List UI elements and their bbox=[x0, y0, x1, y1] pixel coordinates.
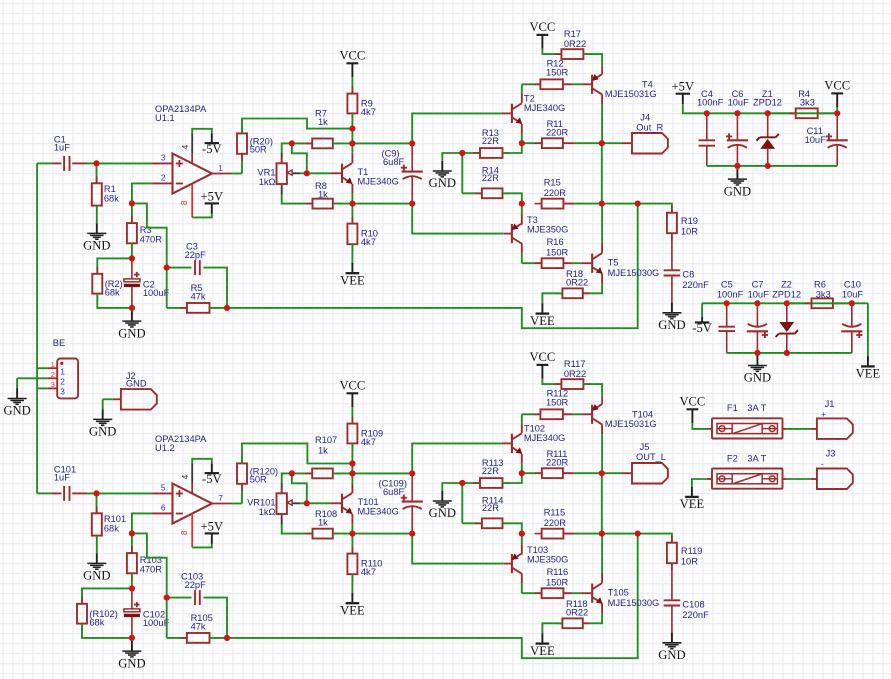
resistor R10 bbox=[347, 217, 357, 252]
svg-text:C7: C7 bbox=[752, 279, 764, 289]
wire GND junction down bbox=[461, 483, 463, 523]
node C6 bottom bbox=[734, 163, 740, 169]
svg-text:22R: 22R bbox=[482, 136, 499, 146]
label C1 value bbox=[54, 134, 70, 152]
wire T101 emitter bbox=[351, 514, 353, 534]
wire R101 bottom pin bbox=[96, 536, 98, 554]
svg-text:VCC: VCC bbox=[339, 378, 365, 392]
wire wiper Z-link bbox=[292, 143, 307, 173]
svg-text:C8: C8 bbox=[682, 269, 694, 279]
wire R103 bottom pin bbox=[131, 573, 133, 588]
resistor R101 bbox=[92, 506, 102, 542]
wire F2 right pin bbox=[782, 478, 787, 480]
resistor R11 bbox=[535, 138, 570, 148]
label R7 bbox=[315, 108, 328, 127]
resistor R17 bbox=[554, 49, 590, 59]
label F1 rating bbox=[747, 403, 766, 413]
capacitor C1 bbox=[64, 156, 69, 171]
wire input C1 row bbox=[37, 162, 52, 164]
wire -5V stub link bbox=[701, 303, 703, 317]
connector J5 bbox=[632, 463, 668, 484]
node R3 top junction bbox=[129, 200, 135, 206]
wire R117 to T104 emitter bbox=[583, 384, 602, 396]
wire C102 top pin bbox=[131, 588, 133, 609]
wire VR101 bottom dark segment bbox=[281, 517, 283, 525]
label C8 bbox=[682, 269, 709, 290]
wire GND link bbox=[442, 153, 462, 161]
svg-text:3A T: 3A T bbox=[747, 454, 766, 464]
svg-text:-5V: -5V bbox=[202, 142, 222, 156]
wire C4 top pin bbox=[706, 113, 708, 140]
wire T2 emitter bbox=[521, 124, 523, 143]
resistor R114 bbox=[475, 518, 510, 528]
wire output col bbox=[601, 473, 603, 533]
svg-text:T103: T103 bbox=[527, 545, 548, 555]
wire opamp pin4 to -5V bbox=[192, 129, 212, 134]
wire T4 emitter pin bbox=[601, 66, 603, 74]
label R9 bbox=[361, 99, 376, 118]
supply -5V opamp U1.1 bbox=[202, 133, 222, 156]
label R10 bbox=[361, 229, 378, 248]
wire J3 pin bbox=[811, 478, 817, 480]
svg-text:OUT_L: OUT_L bbox=[636, 452, 666, 462]
wire A from (R20) top bbox=[242, 119, 352, 134]
svg-text:R17: R17 bbox=[564, 29, 581, 39]
capacitor C3 bbox=[195, 260, 200, 275]
svg-text:5: 5 bbox=[161, 482, 166, 492]
svg-text:F2: F2 bbox=[727, 454, 738, 464]
wire opamp pin8 to +5V bbox=[192, 214, 212, 218]
wire VR101 to R108 bbox=[282, 525, 313, 534]
wire R19 top bbox=[638, 204, 672, 213]
svg-text:GND: GND bbox=[658, 648, 685, 662]
label J1 bbox=[825, 399, 835, 409]
svg-text:VEE: VEE bbox=[340, 274, 365, 288]
wire R108 right pin bbox=[333, 533, 353, 535]
node wiper junction bbox=[304, 170, 310, 176]
label T3 bbox=[527, 215, 568, 235]
node C7 bottom bbox=[754, 350, 760, 356]
ground below C2 bbox=[118, 311, 145, 340]
node R108 right junction bbox=[349, 531, 355, 537]
transistor T101 bbox=[342, 493, 352, 514]
pin number 1 opamp out bbox=[218, 163, 223, 173]
label R119 bbox=[681, 546, 703, 566]
label R105 bbox=[191, 613, 213, 632]
label J3 bbox=[826, 448, 836, 458]
node C3 left junction bbox=[164, 265, 170, 271]
svg-text:1uF: 1uF bbox=[54, 143, 70, 153]
svg-text:R16: R16 bbox=[547, 237, 564, 247]
node C9 top junction bbox=[409, 140, 415, 146]
node output junction bbox=[599, 140, 605, 146]
svg-text:220nF: 220nF bbox=[682, 280, 709, 290]
resistor R9 bbox=[347, 87, 357, 121]
wire F2 to J3 bbox=[787, 478, 811, 480]
label C101 value bbox=[54, 464, 76, 482]
label op-amp U1.1 bbox=[155, 104, 207, 123]
supply -5V rail bbox=[692, 317, 712, 335]
resistor R107 bbox=[305, 469, 340, 479]
wire opamp output to R20 node bbox=[232, 503, 242, 505]
wire R1 bottom pin bbox=[96, 206, 98, 224]
wire R119 top bbox=[638, 534, 672, 543]
svg-text:C108: C108 bbox=[682, 599, 704, 609]
svg-text:VEE: VEE bbox=[530, 314, 555, 328]
svg-text:6u8F: 6u8F bbox=[383, 487, 405, 497]
pin number 6 opamp -in bbox=[161, 503, 166, 513]
resistor R14 bbox=[475, 188, 510, 198]
resistor R16 bbox=[535, 258, 571, 268]
label J4 bbox=[636, 113, 663, 133]
wire C3 right bbox=[203, 268, 227, 308]
wire feedback rail bbox=[227, 534, 638, 659]
wire T1 emitter bbox=[351, 184, 353, 204]
svg-text:10R: 10R bbox=[681, 556, 698, 566]
resistor R110 bbox=[347, 547, 357, 582]
wire R109 bottom pin bbox=[351, 443, 353, 463]
wire Z2 bottom pin bbox=[786, 334, 788, 353]
resistor R111 bbox=[535, 468, 570, 478]
wire VR1 wiper dark segment bbox=[292, 172, 299, 174]
wire J5 pin bbox=[622, 472, 632, 474]
svg-text:T105: T105 bbox=[608, 588, 629, 598]
ground -5V block bbox=[744, 355, 771, 384]
power VEE R110 bbox=[340, 593, 365, 618]
svg-text:1: 1 bbox=[51, 360, 55, 369]
svg-text:R1: R1 bbox=[104, 184, 116, 194]
label T102 bbox=[524, 424, 565, 443]
wire feedback rail bbox=[227, 204, 638, 329]
wire J4 pin bbox=[622, 142, 632, 144]
node C2 bottom junction bbox=[129, 305, 135, 311]
wire opamp pin3 stub bbox=[153, 162, 173, 164]
svg-text:22R: 22R bbox=[482, 466, 499, 476]
label R15 bbox=[544, 178, 567, 198]
node Z1 bottom bbox=[765, 163, 771, 169]
wire T103 base feed bbox=[412, 534, 504, 564]
svg-text:J1: J1 bbox=[825, 399, 835, 409]
zener Z2 bbox=[776, 322, 798, 337]
wire R113 right bbox=[503, 473, 522, 483]
wire R19 to C8 bbox=[671, 233, 673, 270]
svg-text:50R: 50R bbox=[250, 475, 267, 485]
ground mid bbox=[429, 491, 456, 520]
svg-text:220R: 220R bbox=[546, 458, 569, 468]
node feedback top junction bbox=[635, 531, 641, 537]
wire T104 emitter pin bbox=[601, 396, 603, 404]
svg-text:VR101: VR101 bbox=[247, 497, 275, 507]
wire C5 top pin bbox=[726, 303, 728, 326]
svg-text:1k: 1k bbox=[318, 117, 328, 127]
svg-text:GND: GND bbox=[83, 569, 110, 583]
svg-text:U1.2: U1.2 bbox=[155, 443, 175, 453]
potentiometer VR101 bbox=[277, 487, 293, 520]
svg-text:0R22: 0R22 bbox=[564, 39, 586, 49]
svg-text:68k: 68k bbox=[104, 194, 119, 204]
wire VR1 wiper bbox=[300, 172, 307, 174]
wire T1 collector bbox=[351, 143, 353, 163]
svg-text:150R: 150R bbox=[546, 68, 569, 78]
wire (R102) bottom bbox=[82, 624, 132, 638]
svg-text:GND: GND bbox=[744, 371, 771, 385]
connector J3 bbox=[817, 469, 853, 490]
wire C3 left bbox=[167, 267, 192, 269]
wire C9 top pin bbox=[411, 143, 413, 171]
label R8 bbox=[315, 181, 328, 200]
power VEE fuse F2 bbox=[680, 487, 705, 512]
zener Z1 bbox=[757, 134, 779, 149]
power VCC R17 bbox=[529, 20, 555, 49]
label C7 bbox=[748, 279, 770, 299]
node R15 left junction bbox=[519, 201, 525, 207]
wire T3 emitter bbox=[521, 204, 523, 225]
svg-text:2: 2 bbox=[51, 370, 55, 379]
svg-text:R117: R117 bbox=[564, 359, 586, 369]
wire R16 left bbox=[522, 262, 542, 264]
wire R114 left bbox=[462, 522, 482, 524]
power VEE R10 bbox=[340, 263, 365, 288]
wire opamp -in pin stub bbox=[153, 512, 173, 514]
wire C6 top pin bbox=[736, 113, 738, 140]
wire VCC to R109 bbox=[351, 407, 353, 418]
wire R10 top pin bbox=[351, 204, 353, 224]
wire R13 left bbox=[462, 152, 480, 154]
label T4 bbox=[605, 80, 657, 100]
svg-text:MJE340G: MJE340G bbox=[524, 103, 565, 113]
wire R112 left bbox=[522, 413, 541, 415]
wire R114 right bbox=[503, 523, 522, 533]
svg-text:0R22: 0R22 bbox=[566, 608, 588, 618]
wire R7 left pin bbox=[292, 142, 312, 144]
svg-text:VCC: VCC bbox=[529, 20, 555, 34]
wire BE pin3 tap bbox=[37, 387, 47, 389]
label (R102) bbox=[89, 609, 117, 628]
wire T3 base pin bbox=[504, 233, 511, 235]
wire to VR1 top bbox=[282, 143, 292, 153]
resistor R113 bbox=[473, 478, 510, 488]
svg-text:F1: F1 bbox=[727, 403, 738, 413]
wire VCC to R17 bbox=[542, 49, 561, 54]
label R107 bbox=[315, 435, 337, 456]
wire T1 base bbox=[307, 172, 331, 174]
wire R10 bottom pin bbox=[351, 244, 353, 263]
wire R105 right bbox=[210, 637, 228, 639]
wire bias row right bbox=[352, 142, 412, 144]
resistor R6 bbox=[805, 298, 840, 308]
wire T4 collector bbox=[601, 94, 603, 143]
node R15 right junction bbox=[599, 201, 605, 207]
label (C9) bbox=[382, 149, 405, 168]
wire Z1 bottom pin bbox=[767, 149, 769, 166]
wire C103 feed bbox=[132, 533, 167, 597]
wire F1 right pin bbox=[782, 428, 787, 430]
svg-text:+: + bbox=[821, 409, 826, 419]
node input junction bbox=[93, 490, 99, 496]
wire F2 left pin bbox=[707, 478, 712, 480]
svg-text:2: 2 bbox=[161, 173, 166, 183]
svg-text:1: 1 bbox=[218, 163, 223, 173]
label J2 bbox=[126, 371, 147, 388]
wire R1 top pin bbox=[96, 163, 98, 183]
svg-text:VEE: VEE bbox=[856, 367, 881, 381]
node R7 left junction bbox=[289, 140, 295, 146]
capacitor C6 bbox=[726, 133, 748, 148]
wire T3 collector bbox=[521, 243, 523, 263]
label R12 bbox=[546, 58, 569, 77]
svg-text:J4: J4 bbox=[640, 113, 650, 123]
label Z1 bbox=[753, 89, 782, 108]
transistor T105 bbox=[592, 583, 602, 604]
fuse F2 bbox=[712, 469, 783, 489]
wire F1 left pin bbox=[707, 428, 712, 430]
node feedback junction bbox=[224, 635, 230, 641]
wire C1 left pin bbox=[52, 162, 61, 164]
svg-text:150R: 150R bbox=[546, 578, 569, 588]
transistor T4 bbox=[592, 74, 602, 94]
svg-text:R6: R6 bbox=[814, 279, 826, 289]
svg-text:VEE: VEE bbox=[340, 604, 365, 618]
wire R14 left bbox=[462, 192, 482, 194]
node wiper junction bbox=[304, 500, 310, 506]
wire C11 bottom pin bbox=[836, 145, 838, 166]
wire VCC to R9 bbox=[351, 77, 353, 88]
wire C1 to opamp +in bbox=[87, 162, 153, 164]
svg-text:MJE340G: MJE340G bbox=[358, 507, 399, 517]
wire VR101 top dark segment bbox=[281, 483, 283, 493]
svg-text:1k: 1k bbox=[318, 190, 328, 200]
wire R15 right bbox=[563, 203, 601, 205]
pin numbers BE left bbox=[51, 360, 55, 389]
label R108 bbox=[315, 509, 337, 528]
resistor (R102) bbox=[77, 597, 87, 631]
transistor T102 bbox=[512, 433, 522, 454]
svg-text:ZPD12: ZPD12 bbox=[753, 98, 782, 108]
wire C101 left pin bbox=[52, 492, 61, 494]
svg-text:50R: 50R bbox=[250, 145, 267, 155]
wire VR101 wiper dark segment bbox=[292, 502, 299, 504]
node R103 bottom junction bbox=[129, 585, 135, 591]
label F2 bbox=[727, 454, 738, 464]
wire BE pin2 stub bbox=[47, 377, 57, 379]
wire R105 left2 bbox=[167, 637, 187, 639]
resistor R13 bbox=[473, 148, 510, 158]
svg-text:68k: 68k bbox=[105, 287, 120, 297]
node output junction bbox=[599, 470, 605, 476]
svg-text:10uF: 10uF bbox=[728, 98, 750, 108]
wire R11 right bbox=[563, 142, 602, 144]
ground below C108 bbox=[658, 633, 685, 662]
svg-text:100nF: 100nF bbox=[717, 290, 744, 300]
wire R16 right bbox=[563, 262, 591, 264]
svg-text:220R: 220R bbox=[546, 128, 569, 138]
label (C109) bbox=[379, 479, 407, 498]
svg-text:220R: 220R bbox=[544, 188, 567, 198]
wire output col bbox=[601, 143, 603, 203]
wire T5 emitter bbox=[583, 274, 602, 294]
svg-text:T101: T101 bbox=[358, 497, 379, 507]
svg-text:-5V: -5V bbox=[202, 472, 222, 486]
wire T103 collector bbox=[521, 573, 523, 593]
wire T102 base feed bbox=[412, 443, 502, 473]
label R16 bbox=[546, 237, 569, 257]
node C109 bottom junction bbox=[409, 531, 415, 537]
pin 8 stub opamp bbox=[191, 514, 193, 548]
wire T101 collector bbox=[351, 473, 353, 493]
wire opamp output pin bbox=[212, 173, 232, 175]
power VCC fuse F1 bbox=[679, 394, 705, 423]
label R116 bbox=[546, 567, 569, 587]
node Z1 top bbox=[765, 110, 771, 116]
svg-text:R116: R116 bbox=[547, 567, 569, 577]
node C5 top bbox=[724, 300, 730, 306]
ground BE pin2 bbox=[3, 388, 30, 417]
label T2 bbox=[524, 94, 565, 113]
wire VEE to F2 bbox=[692, 479, 707, 487]
svg-text:4k7: 4k7 bbox=[361, 437, 376, 447]
wire T103 emitter bbox=[521, 534, 523, 555]
svg-text:68k: 68k bbox=[104, 524, 119, 534]
capacitor C8 bbox=[664, 270, 681, 275]
wire to VR101 top bbox=[282, 473, 292, 483]
resistor R109 bbox=[347, 417, 357, 451]
wire T1 base pin bbox=[331, 172, 341, 174]
wire opamp pin3 stub bbox=[153, 492, 173, 494]
label C6 bbox=[728, 89, 750, 108]
node C109 top junction bbox=[409, 470, 415, 476]
wire C4 bottom pin bbox=[706, 146, 708, 166]
label BE bbox=[53, 338, 65, 348]
svg-text:GND: GND bbox=[658, 318, 685, 332]
svg-text:T5: T5 bbox=[608, 258, 619, 268]
wire R7 right pin bbox=[333, 142, 353, 144]
node R8 right junction bbox=[349, 201, 355, 207]
wire BE pin1 tap bbox=[37, 367, 47, 369]
wire R107 left pin bbox=[292, 472, 312, 474]
wire T102 collector bbox=[521, 414, 523, 433]
svg-text:22pF: 22pF bbox=[185, 250, 207, 260]
svg-text:T3: T3 bbox=[527, 215, 538, 225]
power VEE right bbox=[856, 356, 881, 381]
svg-text:J5: J5 bbox=[640, 442, 650, 452]
wire R9 bottom pin bbox=[351, 113, 353, 128]
wire T104 collector bbox=[601, 424, 603, 473]
node C9 bottom junction bbox=[409, 201, 415, 207]
label C108 bbox=[682, 599, 709, 620]
wire T5 collector bbox=[601, 204, 603, 253]
resistor R7 bbox=[305, 139, 340, 149]
resistor (R20) bbox=[237, 126, 247, 160]
wire T2 base pin bbox=[502, 112, 511, 114]
svg-text:VCC: VCC bbox=[339, 48, 365, 62]
node C10 top bbox=[849, 300, 855, 306]
resistor R19 bbox=[667, 206, 677, 241]
svg-text:150R: 150R bbox=[546, 248, 569, 258]
svg-text:GND: GND bbox=[83, 239, 110, 253]
svg-text:BE: BE bbox=[53, 338, 65, 348]
svg-text:68k: 68k bbox=[89, 617, 104, 627]
svg-text:C10: C10 bbox=[844, 279, 861, 289]
svg-text:3k3: 3k3 bbox=[800, 97, 815, 107]
node R103 top junction bbox=[129, 530, 135, 536]
node feedback top junction bbox=[635, 201, 641, 207]
svg-text:GND: GND bbox=[118, 326, 145, 340]
wire T102 emitter bbox=[521, 454, 523, 473]
power VCC right bbox=[824, 78, 850, 107]
svg-text:10uF: 10uF bbox=[842, 290, 864, 300]
svg-text:MJE15031G: MJE15031G bbox=[605, 89, 657, 99]
label R112 bbox=[546, 388, 569, 407]
